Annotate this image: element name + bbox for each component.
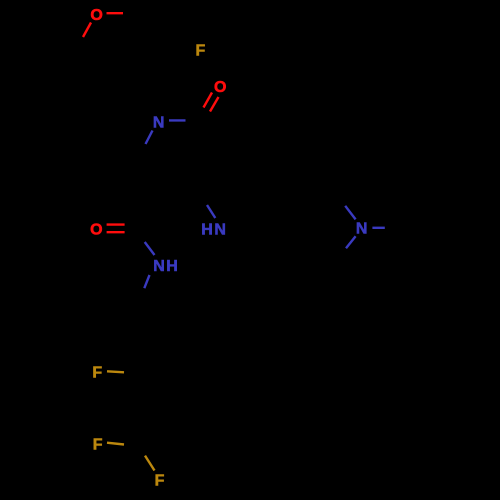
bond C=O(amide) red half line 2 — [107, 231, 125, 233]
svg-text:O: O — [90, 7, 102, 24]
bond NH-CH2 blue half — [144, 275, 149, 288]
svg-text:O: O — [214, 79, 226, 96]
bond O(methoxy)-CH3 red half — [107, 12, 124, 14]
bond N(piperidine)-CH3 blue half — [372, 227, 384, 229]
bond C-NH(secondary amine) blue half — [207, 205, 215, 218]
svg-text:H: H — [201, 221, 213, 238]
svg-text:F: F — [196, 43, 206, 60]
svg-text:F: F — [155, 472, 165, 489]
bond C=O(top) red half line 1 — [204, 93, 213, 108]
bond O(methoxy)-ring red half — [83, 23, 91, 38]
bond N(ring)-C(=O) blue half — [169, 119, 186, 121]
bond F(CHF2)-C gold half — [107, 443, 124, 445]
svg-text:F: F — [93, 437, 103, 454]
svg-text:H: H — [166, 258, 178, 275]
svg-text:N: N — [153, 258, 165, 275]
svg-text:N: N — [214, 221, 226, 238]
bond N(ring)-C blue half — [146, 131, 153, 145]
bond C(amide)-NH blue half — [145, 242, 155, 255]
svg-text:N: N — [153, 114, 165, 131]
bond F(aryl)-C gold half — [107, 371, 124, 372]
bond N(piperidine) lower-left blue half — [346, 236, 356, 248]
svg-text:N: N — [356, 221, 368, 238]
svg-text:O: O — [90, 222, 102, 239]
bond C=O(top) red half line 2 — [210, 97, 219, 112]
bond N(piperidine) upper-left blue half — [345, 206, 355, 220]
svg-text:F: F — [92, 364, 102, 381]
bond C=O(amide) red half line 1 — [107, 223, 125, 225]
bond F(CHF2 lower)-C gold half — [145, 456, 155, 471]
